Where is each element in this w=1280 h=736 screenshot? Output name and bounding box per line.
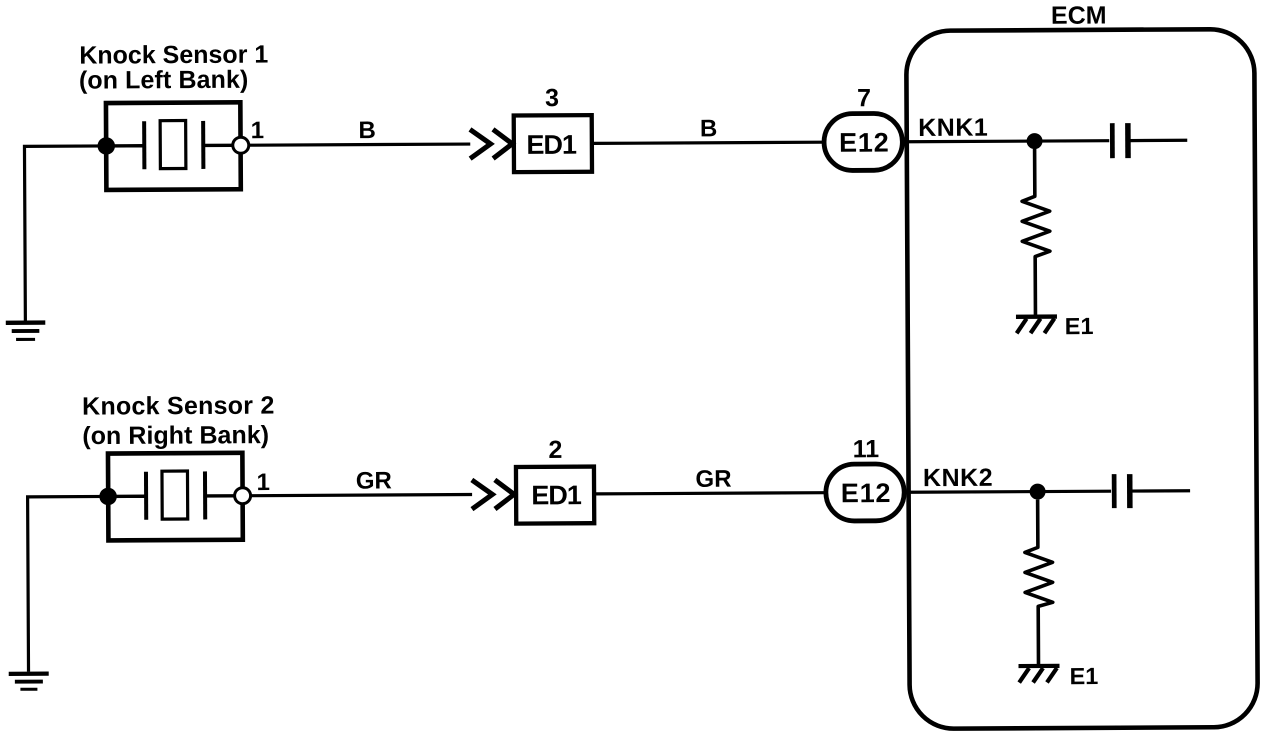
svg-text:E1: E1 xyxy=(1065,313,1094,339)
svg-text:ED1: ED1 xyxy=(526,130,577,160)
node junction KNK2 xyxy=(1030,484,1046,500)
resistor R2 (KNK2 pull-down) xyxy=(1025,499,1053,664)
svg-text:1: 1 xyxy=(251,117,265,144)
knock sensor KS2 (piezo element) xyxy=(108,453,243,541)
node: sensor 2 ground junction xyxy=(99,488,117,506)
svg-text:E12: E12 xyxy=(841,478,892,508)
wire: capacitor C1 output stub xyxy=(1130,139,1188,143)
wire GR: ED1 to E12 (bottom) xyxy=(595,493,825,494)
svg-text:B: B xyxy=(358,117,375,144)
svg-text:1: 1 xyxy=(256,469,270,496)
svg-text:GR: GR xyxy=(356,467,392,494)
svg-text:B: B xyxy=(700,115,717,142)
wire B: sensor 1 to harness connector xyxy=(249,144,470,145)
ground (sensor 2 case ground) xyxy=(9,672,49,691)
svg-text:ECM: ECM xyxy=(1051,2,1107,30)
connector chevrons (sensor 2 harness) xyxy=(472,480,514,509)
svg-text:GR: GR xyxy=(695,466,731,493)
ECM module box U1 xyxy=(906,29,1258,729)
svg-text:KNK1: KNK1 xyxy=(918,114,988,142)
wire: capacitor C2 output stub xyxy=(1131,489,1190,493)
svg-text:E1: E1 xyxy=(1069,663,1098,689)
ground E1 (bottom, ECM internal) xyxy=(1018,664,1059,683)
wire: sensor 2 to ground xyxy=(28,496,109,671)
svg-text:Knock Sensor 2: Knock Sensor 2 xyxy=(82,392,275,421)
svg-text:ED1: ED1 xyxy=(531,480,582,510)
svg-text:(on Left Bank): (on Left Bank) xyxy=(79,66,249,95)
wire: E12 to capacitor (KNK2 net) xyxy=(907,491,1111,492)
connector E12 (bottom) xyxy=(826,464,905,521)
svg-text:7: 7 xyxy=(857,84,871,112)
svg-text:2: 2 xyxy=(548,436,562,464)
node junction KNK1 xyxy=(1027,133,1043,149)
svg-text:E12: E12 xyxy=(839,128,890,158)
ground (sensor 1 case ground) xyxy=(6,320,46,341)
connector E12 (top) xyxy=(824,113,903,170)
junction connector ED1 (bottom) xyxy=(516,467,594,524)
wire B: ED1 to E12 (top) xyxy=(593,142,823,143)
node: sensor 1 ground junction xyxy=(97,137,115,155)
svg-text:(on Right Bank): (on Right Bank) xyxy=(82,421,269,450)
capacitor C1 (KNK1 filter) xyxy=(1112,123,1128,158)
wire GR: sensor 2 to harness connector xyxy=(251,495,472,496)
knock sensor 2 label xyxy=(82,392,275,451)
knock sensor KS1 (piezo element) xyxy=(106,102,241,190)
junction connector ED1 (top) xyxy=(514,115,592,172)
pin 1 terminal of sensor 1 xyxy=(233,137,249,153)
connector chevrons (sensor 1 harness) xyxy=(470,129,512,158)
resistor R1 (KNK1 pull-down) xyxy=(1022,149,1050,316)
wire: sensor 1 to ground xyxy=(24,146,107,321)
knock sensor 1 label xyxy=(79,41,269,95)
capacitor C2 (KNK2 filter) xyxy=(1114,474,1130,508)
wire: E12 to capacitor (KNK1 net) xyxy=(906,141,1110,142)
svg-text:KNK2: KNK2 xyxy=(923,464,993,492)
ground E1 (top, ECM internal) xyxy=(1016,314,1057,333)
pin 1 terminal of sensor 2 xyxy=(235,488,251,504)
svg-text:11: 11 xyxy=(853,435,880,463)
svg-text:3: 3 xyxy=(545,84,559,112)
